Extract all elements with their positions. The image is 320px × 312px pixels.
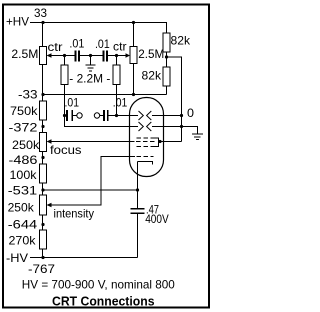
junction wiper row left 2.2M bbox=[63, 54, 66, 57]
capacitor C3 .01 (lower left) with open terminal bbox=[63, 114, 66, 117]
svg-text:focus: focus bbox=[50, 143, 82, 157]
svg-text:-767: -767 bbox=[28, 262, 55, 276]
grid dashed electrode bbox=[137, 156, 154, 158]
svg-text:400V: 400V bbox=[145, 212, 169, 226]
svg-text:33: 33 bbox=[34, 6, 47, 20]
potentiometer R1 2.5M ctr (left) bbox=[40, 47, 47, 65]
junction -33 left rail bbox=[41, 93, 44, 96]
junction bus bottom plate bbox=[180, 125, 183, 128]
node -531 bbox=[41, 188, 44, 191]
svg-text:.01: .01 bbox=[113, 96, 128, 110]
border frame bbox=[3, 5, 209, 308]
svg-text:CRT Connections: CRT Connections bbox=[52, 295, 155, 309]
capacitor C4 .01 (lower right) with open terminal bbox=[94, 113, 99, 118]
wiper arrow focus bbox=[47, 139, 52, 143]
wire bottom plate row right lead bbox=[152, 126, 182, 128]
svg-text:250k: 250k bbox=[8, 200, 35, 214]
junction focus electrode to bus bbox=[158, 140, 161, 143]
svg-text:ctr: ctr bbox=[113, 40, 127, 54]
deflection plates bottom pair bbox=[139, 122, 144, 131]
junction wiper row right 2.2M bbox=[115, 54, 118, 57]
cathode bbox=[138, 162, 153, 165]
svg-text:0: 0 bbox=[187, 106, 194, 120]
resistor R6 82k (lower) bbox=[163, 67, 170, 86]
wire lower-left cap node down to bottom plate row bbox=[65, 116, 139, 127]
wire wiper row segment 1 bbox=[52, 55, 75, 57]
wire cathode to -531 bbox=[43, 189, 138, 191]
wire wiper row segment 3 bbox=[108, 55, 126, 57]
wire left rail intensity to 270k bbox=[42, 215, 44, 230]
svg-text:100k: 100k bbox=[10, 168, 38, 182]
wire left rail upper bbox=[42, 23, 44, 47]
svg-text:HV = 700-900 V, nominal 800: HV = 700-900 V, nominal 800 bbox=[22, 278, 175, 292]
svg-text:.01: .01 bbox=[69, 37, 84, 51]
svg-text:750k: 750k bbox=[10, 104, 39, 118]
svg-text:250k: 250k bbox=[12, 138, 40, 152]
deflection plates top pair bbox=[139, 111, 144, 120]
svg-text:82k: 82k bbox=[142, 69, 162, 83]
CRT envelope bbox=[130, 98, 164, 177]
junction cathode node bbox=[136, 188, 139, 191]
resistor R3 2.2M (left) bbox=[64, 56, 66, 66]
svg-text:- 2.2M -: - 2.2M - bbox=[69, 72, 110, 86]
junction -HV rail bbox=[41, 256, 44, 259]
wire -HV line bbox=[30, 257, 138, 259]
wiper arrow R2 pot right bbox=[126, 53, 131, 57]
wire 82k midpoint to bus bbox=[167, 57, 182, 142]
node -644 bbox=[41, 223, 44, 226]
wire top plate row left lead bbox=[117, 115, 139, 117]
svg-text:270k: 270k bbox=[9, 234, 37, 248]
wire focus wiper to tube bbox=[52, 141, 135, 143]
svg-text:2.5M: 2.5M bbox=[138, 47, 164, 61]
resistor R4 2.2M (right) bbox=[116, 56, 118, 66]
wire top plate row right lead bbox=[152, 115, 182, 117]
capacitor C2 .01 (upper right) bbox=[103, 51, 105, 62]
junction bus top plate bbox=[180, 114, 183, 117]
potentiometer R8 250k focus bbox=[40, 133, 47, 152]
svg-text:-644: -644 bbox=[8, 218, 38, 232]
wiper arrow intensity bbox=[47, 203, 52, 207]
wire -33 line bbox=[43, 94, 167, 96]
junction top rail right pot bbox=[132, 21, 135, 24]
svg-text:+HV: +HV bbox=[6, 15, 29, 29]
svg-text:82k: 82k bbox=[171, 34, 191, 48]
wire +33 top rail bbox=[30, 22, 167, 24]
svg-text:-486: -486 bbox=[9, 153, 38, 167]
svg-text:ctr: ctr bbox=[48, 40, 63, 54]
svg-text:2.5M: 2.5M bbox=[11, 47, 38, 61]
wire left rail 100k to intensity pot bbox=[42, 183, 44, 195]
junction top rail left bbox=[41, 21, 44, 24]
capacitor C1 .01 (upper left) bbox=[75, 51, 77, 62]
junction 82k midpoint bbox=[165, 55, 168, 58]
potentiometer R2 2.5M ctr (right) bbox=[130, 47, 137, 64]
wire intensity wiper to grid (staircase) bbox=[52, 157, 136, 206]
wire bottom plate node to ground bbox=[182, 127, 198, 134]
wire left rail -33 to 750k bbox=[42, 65, 44, 102]
wire left rail focus to 100k bbox=[42, 152, 44, 165]
svg-text:-HV: -HV bbox=[6, 251, 28, 265]
svg-text:-372: -372 bbox=[9, 121, 38, 135]
junction center ground tap bbox=[89, 54, 92, 57]
wire left rail 270k to -HV bbox=[42, 249, 44, 258]
svg-text:.01: .01 bbox=[65, 96, 80, 110]
resistor R11 270k bbox=[40, 230, 47, 249]
wire right pot rail upper bbox=[133, 23, 135, 47]
svg-text:intensity: intensity bbox=[54, 207, 95, 221]
capacitor C5 .47 400V bbox=[131, 208, 145, 210]
wire right pot rail lower bbox=[133, 64, 135, 95]
node -486 bbox=[41, 156, 44, 159]
ground center bbox=[90, 56, 92, 65]
junction -33 right pot rail bbox=[132, 93, 135, 96]
svg-text:-531: -531 bbox=[8, 184, 38, 198]
svg-text:.01: .01 bbox=[95, 37, 110, 51]
wire left rail 750k to focus pot bbox=[42, 120, 44, 133]
resistor R9 100k bbox=[40, 164, 47, 183]
resistor R7 750k bbox=[40, 101, 47, 120]
resistor R5 82k (upper) bbox=[166, 23, 168, 34]
wire wiper row segment 2 bbox=[80, 55, 103, 57]
node -372 bbox=[41, 125, 44, 128]
wire cathode lead down bbox=[137, 162, 139, 209]
wiper arrow R1 bbox=[47, 53, 52, 57]
potentiometer R10 250k intensity bbox=[40, 195, 47, 215]
focus electrode (accelerator) dashed rows with bracket bbox=[137, 137, 156, 139]
ground right bbox=[192, 134, 203, 135]
svg-text:-33: -33 bbox=[18, 87, 38, 101]
